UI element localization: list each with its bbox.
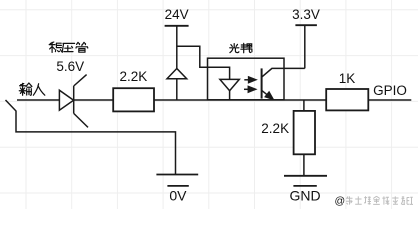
label 光耦 bbox=[230, 43, 252, 52]
wire emitter to pulldown resistor bbox=[303, 100, 305, 111]
node 输入 (input) label bbox=[19, 83, 45, 95]
wire input return to 0V ground bbox=[6, 100, 176, 175]
ground GND bbox=[284, 176, 327, 186]
zener diode 5.6V (稳压管) bbox=[59, 75, 88, 128]
wire input top bbox=[17, 99, 113, 101]
svg-text:24V: 24V bbox=[165, 7, 189, 22]
svg-text:GND: GND bbox=[289, 188, 320, 204]
resistor 2.2K (pulldown) bbox=[294, 111, 315, 154]
wire diode to main bbox=[176, 79, 178, 100]
svg-text:@: @ bbox=[335, 195, 346, 207]
label 稳压管 bbox=[49, 42, 88, 52]
svg-text:2.2K: 2.2K bbox=[261, 121, 289, 136]
light arrows bbox=[244, 77, 256, 92]
LED inside optocoupler bbox=[220, 79, 239, 99]
diode (clamp to 24V) bbox=[167, 69, 187, 79]
svg-text:2.2K: 2.2K bbox=[120, 69, 148, 84]
wire resistor to GND bbox=[303, 154, 305, 176]
optocoupler U1 box (光耦) bbox=[208, 58, 285, 100]
wire 24V down bbox=[176, 26, 178, 69]
resistor 1K bbox=[326, 89, 368, 110]
power 24V rail bbox=[165, 25, 189, 27]
svg-text:1K: 1K bbox=[339, 71, 356, 86]
phototransistor inside optocoupler bbox=[262, 68, 305, 99]
svg-text:GPIO: GPIO bbox=[373, 83, 407, 98]
resistor 2.2K (left) bbox=[113, 88, 154, 111]
svg-text:0V: 0V bbox=[169, 188, 187, 204]
wire 24V branch to optocoupler LED anode bbox=[177, 46, 230, 79]
wire to GPIO bbox=[368, 99, 411, 101]
svg-text:5.6V: 5.6V bbox=[56, 59, 84, 74]
watermark @稀土掘金技术社区 bbox=[335, 195, 414, 207]
svg-text:3.3V: 3.3V bbox=[292, 7, 320, 22]
wire main middle bbox=[154, 99, 326, 101]
ground 0V bbox=[156, 175, 198, 186]
power 3.3V rail bbox=[304, 25, 306, 68]
